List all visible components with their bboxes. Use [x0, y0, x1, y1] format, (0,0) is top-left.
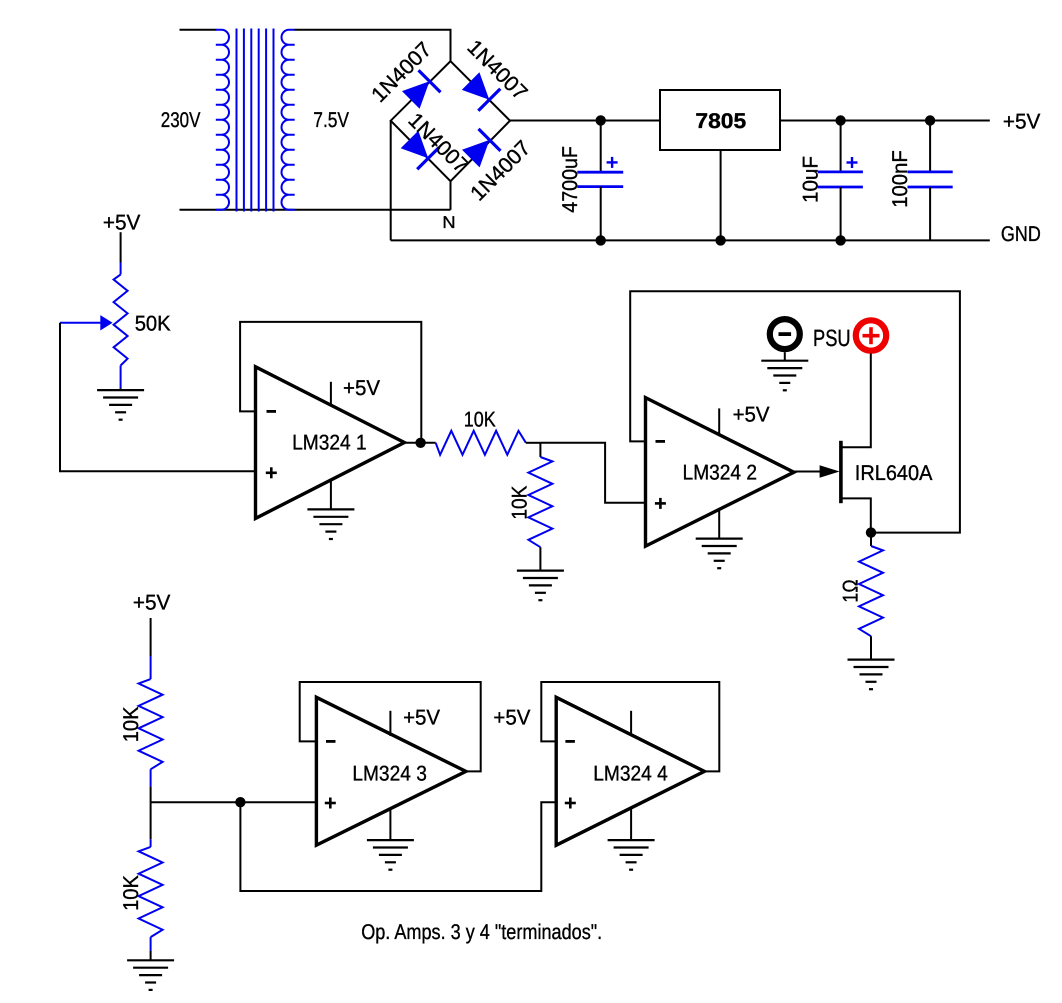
wire wiper to op-amp input	[60, 323, 255, 472]
U1 minus marker	[267, 410, 277, 413]
svg-text:4700uF: 4700uF	[558, 146, 582, 213]
ground R3	[517, 571, 564, 601]
svg-text:1Ω: 1Ω	[839, 579, 863, 602]
transformer T1 secondary winding	[282, 30, 295, 210]
U5 plus marker	[565, 798, 576, 809]
ground PSU negative	[761, 361, 808, 391]
node dot U1 output	[415, 438, 425, 448]
wire GND rail	[391, 239, 990, 241]
svg-text:10K: 10K	[119, 707, 143, 743]
ground R4	[848, 660, 895, 690]
svg-text:7805: 7805	[695, 109, 746, 133]
op-amp U3 LM324 2	[646, 398, 794, 546]
diode D2 upper-right 1N4007	[462, 72, 501, 111]
resistor R4 1 ohm	[859, 533, 883, 660]
svg-text:+5V: +5V	[343, 376, 381, 400]
U3 plus marker	[655, 498, 666, 509]
wire primary top lead	[180, 29, 217, 31]
diode D3 lower-left 1N4007	[401, 131, 440, 170]
U1 ground pin	[330, 480, 332, 509]
ground U4	[367, 840, 414, 870]
svg-text:LM324 3: LM324 3	[352, 762, 427, 786]
wire junction to U3 plus input	[540, 443, 645, 503]
capacitor C3 100nF	[908, 121, 953, 241]
op-amp U1 LM324 1	[256, 367, 405, 519]
pot wiper arrow	[60, 315, 113, 330]
node dot C1 top	[596, 115, 606, 125]
SECTIONS INSERTED BELOW	[161, 29, 1041, 247]
svg-text:10K: 10K	[464, 407, 496, 431]
wire divider top lead	[150, 618, 152, 656]
potentiometer R1 50K	[114, 263, 128, 389]
bridge rectifier diamond	[391, 61, 510, 181]
svg-text:+5V: +5V	[1003, 110, 1041, 134]
wire primary bottom lead	[180, 209, 451, 211]
wire 7805 ground pin	[720, 150, 722, 240]
op-amp U4 LM324 3	[316, 697, 466, 845]
svg-text:10K: 10K	[119, 875, 143, 911]
transistor Q1 gate arrow	[820, 465, 840, 477]
svg-text:+5V: +5V	[493, 705, 531, 729]
wire R2 to junction	[526, 442, 541, 444]
resistor R5 10K upper divider	[139, 656, 163, 787]
ground divider	[127, 960, 174, 990]
wire U5 feedback loop	[541, 682, 719, 771]
svg-text:PSU: PSU	[813, 325, 851, 351]
wire U1 output	[404, 442, 435, 444]
resistor R3 10K vertical	[528, 443, 552, 571]
ground U5	[608, 840, 655, 870]
U1 power pin	[330, 382, 332, 406]
U4 power pin	[389, 711, 391, 736]
U3 ground pin	[718, 509, 720, 538]
svg-text:Op. Amps. 3 y 4 "terminados".: Op. Amps. 3 y 4 "terminados".	[361, 920, 602, 944]
svg-text:LM324 1: LM324 1	[292, 431, 367, 455]
transformer T1 core	[237, 29, 274, 212]
diode D4 lower-right 1N4007	[462, 129, 501, 168]
wire U1 feedback loop	[240, 322, 421, 443]
terminal PSU negative	[770, 319, 800, 361]
ground pot	[97, 388, 144, 420]
ground U1	[307, 509, 354, 539]
ground U3	[696, 539, 743, 569]
node dot C2 top	[835, 115, 845, 125]
wire bridge bottom to secondary	[450, 181, 452, 210]
node dot C2 bottom	[835, 235, 845, 245]
svg-text:GND: GND	[1001, 222, 1041, 246]
node dot source junction	[866, 527, 876, 537]
capacitor C1 4700uF	[577, 120, 623, 240]
node dot C3 top	[925, 115, 935, 125]
U3 power pin	[718, 408, 720, 436]
svg-text:10K: 10K	[507, 486, 531, 520]
node dot divider junction	[235, 797, 245, 807]
op-amp U5 LM324 4	[556, 697, 704, 845]
svg-text:LM324 2: LM324 2	[683, 461, 758, 485]
svg-text:+5V: +5V	[103, 211, 141, 235]
capacitor C2 10uF	[818, 121, 863, 241]
svg-text:+5V: +5V	[133, 591, 171, 615]
U4 ground pin	[389, 809, 391, 841]
svg-text:50K: 50K	[135, 312, 171, 336]
svg-text:LM324 4: LM324 4	[593, 762, 668, 786]
node dot 7805 gnd	[715, 235, 725, 245]
svg-text:10uF: 10uF	[799, 156, 823, 203]
diode D1 upper-left 1N4007	[402, 70, 441, 109]
U4 minus marker	[326, 740, 336, 743]
wire divider junction to U4 plus input	[151, 801, 317, 803]
node dot C1 bottom	[596, 235, 606, 245]
resistor R6 10K lower divider	[139, 802, 163, 960]
regulator U2 7805 box	[660, 90, 780, 150]
svg-text:+5V: +5V	[403, 705, 441, 729]
wire R5 to junction	[150, 787, 152, 803]
U5 power pin	[630, 711, 632, 736]
U4 plus marker	[325, 798, 336, 809]
wire secondary top to bridge	[295, 30, 451, 61]
svg-text:N: N	[442, 213, 455, 232]
U1 plus marker	[266, 467, 277, 478]
transformer T1 primary winding	[216, 30, 229, 210]
terminal PSU positive	[856, 320, 886, 350]
wire +5V rail	[510, 120, 990, 122]
wire U3 feedback loop	[630, 291, 960, 532]
resistor R2 10K horizontal	[436, 431, 526, 455]
svg-text:7.5V: 7.5V	[313, 108, 349, 132]
U3 minus marker	[656, 440, 666, 443]
wire bridge negative to GND rail	[390, 121, 392, 241]
svg-text:+5V: +5V	[733, 402, 771, 426]
transistor Q1 IRL640A body	[841, 354, 871, 533]
wire U3 output to gate	[794, 471, 823, 473]
wire U4 feedback loop	[300, 682, 481, 771]
svg-text:100nF: 100nF	[888, 150, 912, 208]
U5 minus marker	[565, 740, 575, 743]
wire U5 plus input to divider junction	[240, 802, 556, 891]
U5 ground pin	[630, 808, 632, 840]
svg-text:230V: 230V	[161, 108, 201, 132]
wire pot top lead	[120, 232, 122, 262]
svg-text:IRL640A: IRL640A	[855, 461, 933, 485]
